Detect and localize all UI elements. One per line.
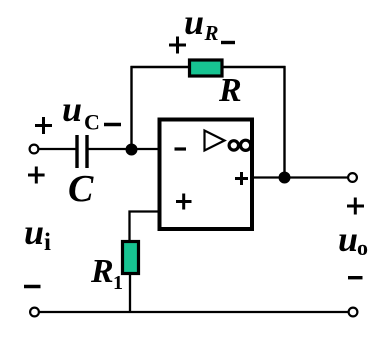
wire R1 to ground rail: [129, 274, 131, 312]
svg-text:i: i: [44, 229, 51, 256]
svg-text:C: C: [84, 110, 100, 135]
polarity plus sign (left of uR): [169, 44, 186, 47]
wire feedback down: [283, 66, 285, 178]
wire capacitor to op-amp inverting input: [87, 148, 160, 150]
output terminal (bottom right): [349, 308, 358, 317]
op-amp U1 body: [160, 120, 253, 230]
svg-text:u: u: [338, 219, 358, 259]
svg-text:R: R: [90, 253, 114, 290]
capacitor C1 left plate: [75, 135, 78, 168]
output terminal (top right): [348, 173, 357, 182]
polarity minus sign (input bottom): [24, 285, 41, 288]
svg-text:u: u: [24, 212, 44, 252]
op-amp U1 infinity gain symbol: [229, 141, 238, 150]
capacitor C1 right plate: [85, 135, 88, 168]
polarity minus sign (right of uC): [104, 123, 121, 126]
wire output: [253, 176, 352, 178]
bottom rail wire: [39, 311, 349, 313]
node A junction dot: [126, 144, 138, 156]
svg-text:R: R: [218, 72, 242, 109]
polarity plus sign (output top): [347, 205, 364, 208]
op-amp U1 inverting input minus sign: [175, 147, 187, 150]
op-amp U1 triangle symbol: [205, 131, 225, 151]
op-amp U1 output plus sign: [235, 177, 248, 180]
polarity plus sign (left of uC): [35, 124, 52, 127]
polarity plus sign (input top): [28, 174, 45, 177]
resistor R1: [123, 242, 139, 274]
input terminal (top left): [30, 145, 39, 154]
svg-text:R: R: [204, 21, 219, 45]
svg-text:u: u: [184, 2, 204, 42]
resistor R: [190, 60, 223, 76]
input terminal (bottom left): [30, 308, 39, 317]
svg-text:C: C: [68, 168, 94, 210]
svg-text:u: u: [62, 89, 82, 129]
wire feedback top: [131, 66, 286, 68]
polarity minus sign (output bottom): [348, 276, 363, 279]
node B junction dot (output): [279, 172, 291, 184]
wire feedback up: [130, 66, 132, 151]
polarity minus sign (right of uR): [221, 41, 235, 44]
wire input to capacitor: [39, 148, 76, 150]
svg-text:1: 1: [113, 272, 123, 294]
svg-text:o: o: [357, 235, 368, 260]
op-amp U1 non-inverting input plus sign: [176, 200, 192, 203]
wire op-amp non-inverting input: [130, 212, 161, 242]
